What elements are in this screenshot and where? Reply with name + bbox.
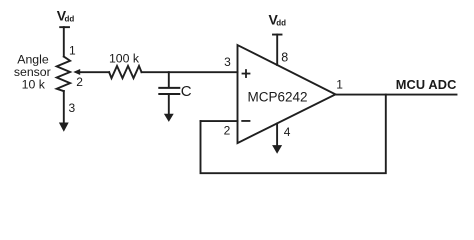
svg-text:3: 3: [69, 101, 76, 115]
svg-text:2: 2: [224, 124, 231, 138]
svg-text:4: 4: [284, 125, 291, 139]
svg-text:3: 3: [224, 55, 231, 69]
svg-text:8: 8: [281, 50, 288, 64]
svg-text:2: 2: [76, 75, 83, 89]
svg-text:100 k: 100 k: [109, 52, 140, 66]
svg-text:1: 1: [69, 43, 76, 57]
svg-text:MCP6242: MCP6242: [247, 89, 307, 104]
svg-text:1: 1: [336, 78, 343, 92]
svg-text:Vdd: Vdd: [269, 12, 287, 28]
svg-text:MCU ADC: MCU ADC: [396, 77, 457, 92]
svg-text:Vdd: Vdd: [57, 8, 75, 24]
svg-text:C: C: [181, 83, 192, 100]
svg-text:10 k: 10 k: [22, 78, 46, 92]
